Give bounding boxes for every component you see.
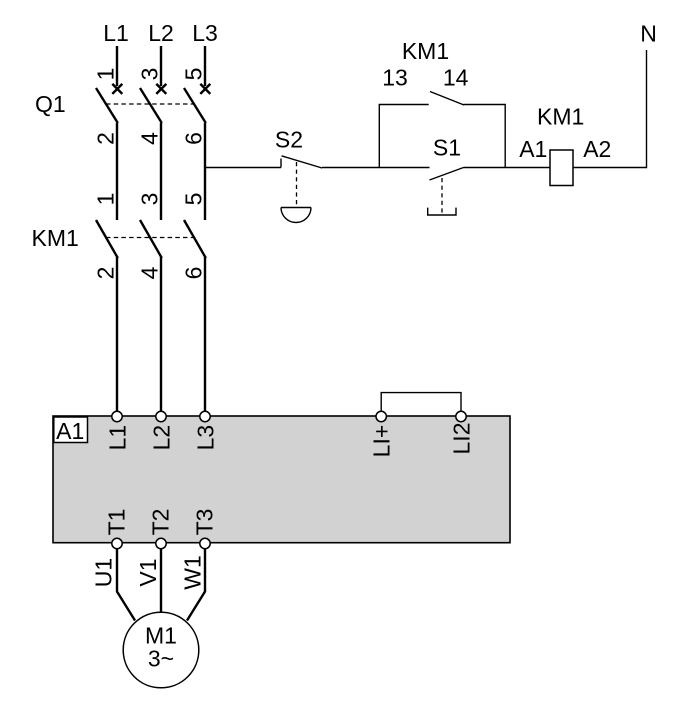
S2 mushroom head: [281, 208, 311, 223]
svg-text:A1: A1: [519, 136, 547, 162]
wire pole 3 Q1 to KM1: [204, 123, 206, 220]
terminal L3: [200, 411, 210, 421]
breaker Q1 pole 2 blade: [140, 88, 162, 123]
wire L2 incoming: [160, 46, 162, 86]
svg-text:A1: A1: [56, 418, 84, 444]
terminal L2: [156, 411, 166, 421]
terminal LI2: [456, 411, 466, 421]
terminal LI+: [376, 411, 386, 421]
svg-text:L2: L2: [148, 425, 174, 451]
wire pole 3 KM1 to A1 box: [204, 257, 206, 412]
wire coil to N: [573, 167, 647, 169]
svg-text:1: 1: [93, 68, 119, 81]
breaker Q1 pole 1 blade: [96, 88, 118, 123]
wire T2 to motor: [160, 549, 162, 612]
S2 actuator dashed link: [296, 162, 298, 207]
svg-text:6: 6: [181, 267, 207, 280]
pushbutton S2 blade: [282, 156, 323, 168]
terminal T1: [112, 538, 122, 548]
svg-text:6: 6: [181, 132, 207, 145]
breaker cross pole 2: [156, 84, 166, 94]
contactor KM1 pole 3 blade: [184, 220, 206, 258]
KM1 linkage dashed: [106, 237, 193, 239]
svg-text:5: 5: [181, 193, 207, 206]
svg-text:2: 2: [93, 267, 119, 280]
wire pole 2 KM1 to A1 box: [160, 257, 162, 412]
wire S2 to S1: [322, 167, 430, 169]
terminal T3: [200, 538, 210, 548]
wire pole 2 Q1 to KM1: [160, 123, 162, 220]
svg-text:L3: L3: [192, 425, 218, 451]
svg-text:13: 13: [382, 65, 408, 91]
svg-text:L2: L2: [148, 20, 174, 46]
soft starter A1 body: [53, 416, 510, 543]
svg-text:Q1: Q1: [35, 91, 66, 117]
svg-text:T3: T3: [191, 509, 217, 536]
pushbutton S1 blade: [430, 168, 464, 181]
svg-text:N: N: [640, 21, 657, 47]
svg-text:L1: L1: [103, 20, 129, 46]
wire L1 incoming: [116, 46, 118, 86]
contactor KM1 pole 2 blade: [140, 220, 162, 258]
svg-text:3: 3: [137, 68, 163, 81]
svg-text:T1: T1: [103, 509, 129, 536]
svg-text:S1: S1: [433, 135, 461, 161]
svg-text:4: 4: [137, 132, 163, 145]
breaker Q1 pole 3 blade: [184, 88, 206, 123]
pushbutton S2 fixed contact tick: [280, 159, 282, 168]
Q1 linkage dashed: [106, 103, 193, 105]
svg-text:L1: L1: [104, 425, 130, 451]
wire T3 to motor: [187, 549, 205, 621]
svg-text:4: 4: [137, 266, 163, 279]
svg-text:T2: T2: [147, 509, 173, 536]
wire T1 to motor: [117, 549, 135, 621]
label A1 (device): [54, 417, 88, 444]
svg-text:KM1: KM1: [402, 38, 449, 64]
svg-text:5: 5: [181, 68, 207, 81]
wire L3 incoming: [204, 46, 206, 86]
svg-text:KM1: KM1: [32, 225, 79, 251]
motor M1: [123, 612, 199, 688]
svg-text:V1: V1: [135, 558, 161, 586]
svg-text:A2: A2: [583, 136, 611, 162]
wire aux branch left: [379, 105, 428, 168]
aux contact KM1 13-14 blade: [430, 92, 464, 106]
wire control tap: [205, 167, 281, 169]
svg-text:W1: W1: [180, 555, 206, 590]
svg-text:U1: U1: [91, 558, 117, 587]
wire aux branch right: [464, 105, 506, 168]
wire S1 to coil: [464, 167, 551, 169]
wire pole 1 KM1 to A1 box: [116, 257, 118, 412]
svg-text:KM1: KM1: [537, 104, 584, 130]
svg-text:3~: 3~: [148, 646, 174, 672]
wire N vertical: [646, 50, 648, 168]
S1 actuator dashed link: [441, 178, 443, 215]
contactor KM1 pole 1 blade: [96, 220, 118, 258]
terminal L1: [112, 411, 122, 421]
svg-text:L3: L3: [192, 20, 218, 46]
coil KM1: [550, 150, 573, 186]
svg-text:LI+: LI+: [369, 425, 395, 458]
svg-text:LI2: LI2: [448, 423, 474, 455]
svg-text:S2: S2: [275, 127, 303, 153]
svg-text:2: 2: [93, 132, 119, 145]
svg-text:1: 1: [93, 193, 119, 206]
S1 manual actuator bracket: [428, 208, 456, 215]
svg-text:14: 14: [443, 65, 469, 91]
breaker cross pole 3: [200, 84, 210, 94]
wire pole 1 Q1 to KM1: [116, 123, 118, 220]
breaker cross pole 1: [112, 84, 122, 94]
svg-text:3: 3: [137, 193, 163, 206]
terminal T2: [156, 538, 166, 548]
jumper LI+ to LI2: [381, 393, 461, 412]
